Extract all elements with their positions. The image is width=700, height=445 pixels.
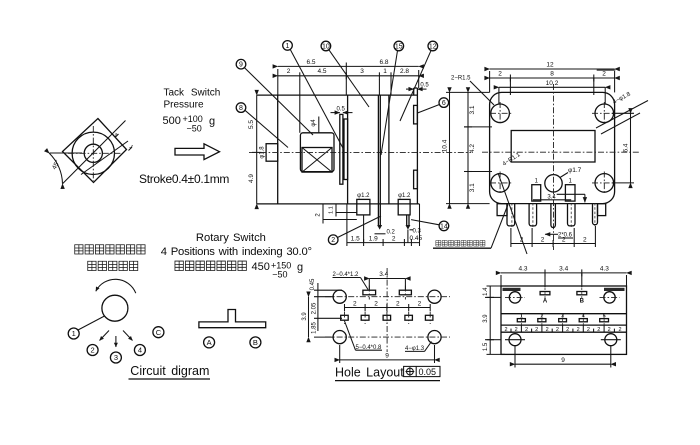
svg-text:12: 12 xyxy=(429,44,437,51)
pad A xyxy=(540,288,550,305)
svg-text:2: 2 xyxy=(535,327,538,333)
position arrow 3 xyxy=(115,336,117,347)
center lines hole layout xyxy=(325,268,450,352)
middle pin pair xyxy=(377,95,382,230)
phi1.7 label xyxy=(560,167,582,178)
top dim row 6.5 / 6.8 xyxy=(278,59,419,70)
svg-text:0.5: 0.5 xyxy=(420,83,429,89)
svg-text:2: 2 xyxy=(287,68,291,75)
svg-text:2: 2 xyxy=(353,300,357,307)
svg-text:6.5: 6.5 xyxy=(306,59,315,66)
svg-text:2: 2 xyxy=(608,327,611,333)
phi4 label xyxy=(311,117,319,133)
svg-text:2: 2 xyxy=(556,327,559,333)
key slot line 1 xyxy=(63,121,126,184)
pad view top dims 4.3/3.4/4.3 xyxy=(501,266,627,287)
pad view left dims 1.4/3.9/1.5 xyxy=(483,286,505,354)
leader 8 xyxy=(245,110,288,147)
Hole Layout title xyxy=(335,366,440,381)
svg-text:3.4: 3.4 xyxy=(379,271,388,278)
label 2-0.4*1.2 xyxy=(333,272,369,290)
leader 6 xyxy=(418,105,440,114)
svg-text:0.05: 0.05 xyxy=(419,367,437,377)
svg-text:A: A xyxy=(543,298,548,304)
svg-text:1.1: 1.1 xyxy=(329,206,335,214)
top slot 1 xyxy=(363,286,376,300)
plate 2 xyxy=(344,119,348,180)
body internal vertical 2 xyxy=(388,95,390,204)
angle reference line xyxy=(49,152,82,154)
svg-text:2: 2 xyxy=(546,327,549,333)
label 4-R1.1 xyxy=(498,152,527,254)
leader 14 xyxy=(411,220,439,225)
balloon 2 xyxy=(328,235,338,245)
svg-text:0.5: 0.5 xyxy=(337,107,346,113)
svg-text:9: 9 xyxy=(239,62,243,69)
svg-text:2: 2 xyxy=(597,327,600,333)
leader 15 xyxy=(381,51,398,155)
bottom dim row xyxy=(347,204,423,246)
svg-text:1.85: 1.85 xyxy=(312,322,318,334)
svg-text:Pressure: Pressure xyxy=(164,100,204,111)
left dims 10.4 and 3.1/4.2/3.1 xyxy=(442,92,492,203)
front body xyxy=(490,92,615,203)
X box xyxy=(302,148,332,173)
svg-text:0.45: 0.45 xyxy=(409,235,422,242)
balloon B xyxy=(250,337,261,348)
svg-text:φ4: φ4 xyxy=(311,119,317,127)
mid slots row xyxy=(341,312,433,325)
svg-text:3.4: 3.4 xyxy=(547,194,556,200)
front top dim 12 xyxy=(490,62,615,69)
svg-text:−50: −50 xyxy=(272,270,287,280)
svg-text:4 Positions with indexing 30.0: 4 Positions with indexing 30.0° xyxy=(161,246,312,258)
svg-text:9: 9 xyxy=(561,357,565,364)
window rect xyxy=(511,131,595,163)
dim 0.3 xyxy=(410,229,422,235)
svg-text:g: g xyxy=(209,116,215,128)
plate dim 0.5 xyxy=(331,107,353,113)
svg-text:4.9: 4.9 xyxy=(248,174,255,183)
tiny edge dims xyxy=(112,132,134,150)
shaft xyxy=(266,144,278,162)
rotation arc arrow xyxy=(96,279,136,293)
corner post TL xyxy=(491,104,510,123)
svg-text:3: 3 xyxy=(114,353,118,362)
svg-text:2: 2 xyxy=(562,237,566,244)
svg-text:3.1: 3.1 xyxy=(469,183,476,192)
svg-text:2: 2 xyxy=(374,300,378,307)
block arrow xyxy=(175,144,220,160)
leader 9 xyxy=(244,68,313,135)
hole circle TL xyxy=(333,290,346,303)
center lines xyxy=(68,126,121,181)
mid pads 1-5 xyxy=(517,314,608,326)
svg-text:2: 2 xyxy=(418,300,422,307)
svg-text:Circuit digram: Circuit digram xyxy=(130,364,209,378)
svg-text:2: 2 xyxy=(498,71,502,78)
knob block xyxy=(300,133,334,172)
svg-text:4.3: 4.3 xyxy=(518,266,527,273)
svg-text:12: 12 xyxy=(546,62,554,69)
svg-text:1.9: 1.9 xyxy=(369,236,378,243)
balloon 8 xyxy=(236,103,246,113)
svg-text:3.4: 3.4 xyxy=(559,266,568,273)
svg-text:2: 2 xyxy=(331,237,335,244)
position arrow 2 xyxy=(100,331,110,341)
dim 2*0.6 xyxy=(545,233,573,239)
knob inner circle xyxy=(84,144,102,162)
svg-text:2: 2 xyxy=(618,327,621,333)
svg-text:5.5: 5.5 xyxy=(248,120,255,129)
extension lines from dims xyxy=(278,69,419,133)
leader to balloon 1 xyxy=(78,316,105,330)
knob outer circle xyxy=(72,132,114,174)
step dims left of leg xyxy=(316,204,357,224)
center hole xyxy=(545,175,562,192)
knob circle xyxy=(102,295,128,321)
svg-text:+100: +100 xyxy=(183,114,203,124)
svg-text:10.4: 10.4 xyxy=(442,139,449,152)
inner horizontals xyxy=(501,314,627,333)
dim row 2/4.5/3/1/2.8 xyxy=(278,68,419,79)
svg-text:2: 2 xyxy=(396,300,400,307)
svg-text:8: 8 xyxy=(239,105,243,112)
svg-text:2.8: 2.8 xyxy=(400,68,409,75)
balloon 12 xyxy=(428,41,438,51)
label 2-R1.5 xyxy=(451,76,494,106)
left leg xyxy=(357,193,370,243)
svg-text:g: g xyxy=(297,262,303,274)
pad view bottom dim 9 xyxy=(515,346,611,368)
balloon 9 xyxy=(236,59,246,69)
svg-text:1.4: 1.4 xyxy=(483,287,489,296)
corner post TR xyxy=(595,104,614,123)
svg-text:2: 2 xyxy=(515,327,518,333)
pad circles xyxy=(485,292,621,346)
circuit diagram title xyxy=(129,364,211,379)
leader 12 xyxy=(400,51,431,121)
svg-text:4.3: 4.3 xyxy=(600,266,609,273)
note line 1 CJK xyxy=(75,245,145,254)
balloon 4b xyxy=(134,345,145,356)
plate 1 xyxy=(340,114,343,184)
label 5-0.4*0.8 xyxy=(345,321,383,351)
extensions top front xyxy=(490,71,615,104)
svg-text:450: 450 xyxy=(252,261,270,273)
outer rect xyxy=(501,286,627,354)
svg-text:B: B xyxy=(253,338,258,347)
svg-text:2: 2 xyxy=(602,71,606,78)
svg-text:2: 2 xyxy=(566,327,569,333)
svg-text:1: 1 xyxy=(286,43,290,50)
45 degree arc xyxy=(49,153,62,183)
svg-text:2: 2 xyxy=(525,327,528,333)
right edge xyxy=(414,88,418,204)
rotary force line xyxy=(175,261,303,280)
right clip bottom xyxy=(414,170,418,189)
label 4-phi1.3 xyxy=(405,342,432,353)
balloon 15 xyxy=(394,41,404,51)
right dim 6.4 xyxy=(612,113,634,183)
svg-text:3: 3 xyxy=(360,68,364,75)
center lines front view xyxy=(482,84,640,250)
svg-text:0.45: 0.45 xyxy=(310,278,316,290)
rotated body outline xyxy=(63,119,127,183)
dim row 2x4 xyxy=(345,300,431,311)
svg-text:2: 2 xyxy=(541,237,545,244)
leader 10 xyxy=(329,50,369,107)
top slot 2 xyxy=(399,286,411,300)
hole layout left dims xyxy=(302,278,342,337)
date position note xyxy=(433,205,508,249)
svg-text:φ1.2: φ1.2 xyxy=(357,193,370,199)
svg-text:0.2: 0.2 xyxy=(387,230,396,236)
svg-text:A: A xyxy=(207,338,212,347)
svg-text:φ1.2: φ1.2 xyxy=(398,193,411,199)
svg-text:φ1.7: φ1.7 xyxy=(568,167,582,174)
left vertical dim line 5.5/4.9 xyxy=(248,95,261,204)
balloon C xyxy=(153,327,164,338)
label 500 +100 -50 g xyxy=(163,114,216,134)
svg-text:Tack Switch: Tack Switch xyxy=(164,88,221,99)
svg-text:0.3: 0.3 xyxy=(413,229,422,235)
svg-text:6: 6 xyxy=(442,100,446,107)
corner post BL xyxy=(491,174,510,193)
right leg xyxy=(398,193,411,243)
svg-text:Stroke0.4±0.1mm: Stroke0.4±0.1mm xyxy=(139,172,229,186)
svg-text:15: 15 xyxy=(395,44,403,51)
svg-text:9: 9 xyxy=(385,353,389,360)
body internal vertical xyxy=(347,95,349,204)
hole circle TR xyxy=(428,290,441,303)
svg-text:2: 2 xyxy=(577,327,580,333)
note line 2 CJK xyxy=(88,261,138,270)
right clip top xyxy=(414,105,418,124)
body top edge xyxy=(257,94,418,96)
label 4-phi1.8 xyxy=(596,91,648,134)
body bottom edge xyxy=(257,203,420,205)
svg-text:10.2: 10.2 xyxy=(546,80,559,87)
leader 2 xyxy=(338,216,382,238)
top right bar xyxy=(604,288,625,291)
svg-text:1: 1 xyxy=(72,329,76,338)
svg-text:2−R1.5: 2−R1.5 xyxy=(451,76,471,82)
svg-text:4.2: 4.2 xyxy=(469,144,476,153)
hole circle BR xyxy=(428,331,441,344)
mid dim 2 row xyxy=(504,325,621,333)
hole circle BL xyxy=(333,331,346,344)
svg-text:2: 2 xyxy=(91,346,95,355)
balloon 3b xyxy=(110,352,121,363)
svg-text:C: C xyxy=(156,328,162,337)
pad B xyxy=(577,288,587,305)
key slot line 2 xyxy=(81,141,128,175)
legs of front view xyxy=(497,203,606,228)
front bottom dim row xyxy=(511,226,596,247)
svg-text:4.5: 4.5 xyxy=(317,68,326,75)
svg-text:2: 2 xyxy=(587,327,590,333)
balloon 6 xyxy=(439,98,449,108)
dim 0.2 xyxy=(375,230,396,236)
svg-text:Rotary Switch: Rotary Switch xyxy=(196,232,266,244)
bottom dim 9 hole xyxy=(340,345,435,363)
balloon 1b xyxy=(68,328,79,339)
svg-text:2.05: 2.05 xyxy=(312,302,318,314)
front dim 10.2 xyxy=(499,80,605,87)
svg-text:3.9: 3.9 xyxy=(483,314,489,323)
small inner terminals with dim 1 xyxy=(532,179,585,203)
svg-text:2: 2 xyxy=(583,237,587,244)
balloon 2b xyxy=(87,345,98,356)
svg-text:6.4: 6.4 xyxy=(622,143,629,152)
svg-text:B: B xyxy=(580,298,585,304)
corner post BR xyxy=(595,174,614,193)
balloon 10 xyxy=(321,41,331,51)
body left face xyxy=(277,95,279,204)
svg-text:14: 14 xyxy=(440,223,448,230)
svg-text:1.5: 1.5 xyxy=(483,342,489,351)
svg-text:10: 10 xyxy=(322,44,330,51)
common contact symbol xyxy=(199,310,266,328)
svg-text:2: 2 xyxy=(392,236,396,243)
svg-text:500: 500 xyxy=(163,115,181,127)
svg-text:−50: −50 xyxy=(187,124,202,134)
balloon A xyxy=(204,337,215,348)
position arrow 4 xyxy=(123,331,133,341)
svg-text:4: 4 xyxy=(138,346,142,355)
front dim 2/8/2 xyxy=(490,71,615,82)
centerline xyxy=(249,151,471,153)
svg-text:2: 2 xyxy=(504,327,507,333)
top left bar xyxy=(503,288,521,291)
svg-text:6.8: 6.8 xyxy=(379,59,388,66)
svg-text:8: 8 xyxy=(550,71,554,78)
dim 3.4 hole xyxy=(369,271,405,290)
balloon 1 xyxy=(283,41,293,51)
balloon 14 xyxy=(439,221,449,231)
svg-text:3.9: 3.9 xyxy=(302,312,308,321)
front dim 2 top right xyxy=(597,69,616,71)
svg-text:3.1: 3.1 xyxy=(469,105,476,114)
svg-text:Hole Layout: Hole Layout xyxy=(335,366,404,380)
svg-text:1: 1 xyxy=(383,68,387,75)
dim 0.5 top right xyxy=(406,83,429,90)
dim 3.4 front xyxy=(533,194,571,200)
leader 1 xyxy=(290,49,344,150)
svg-text:1.5: 1.5 xyxy=(351,236,360,243)
